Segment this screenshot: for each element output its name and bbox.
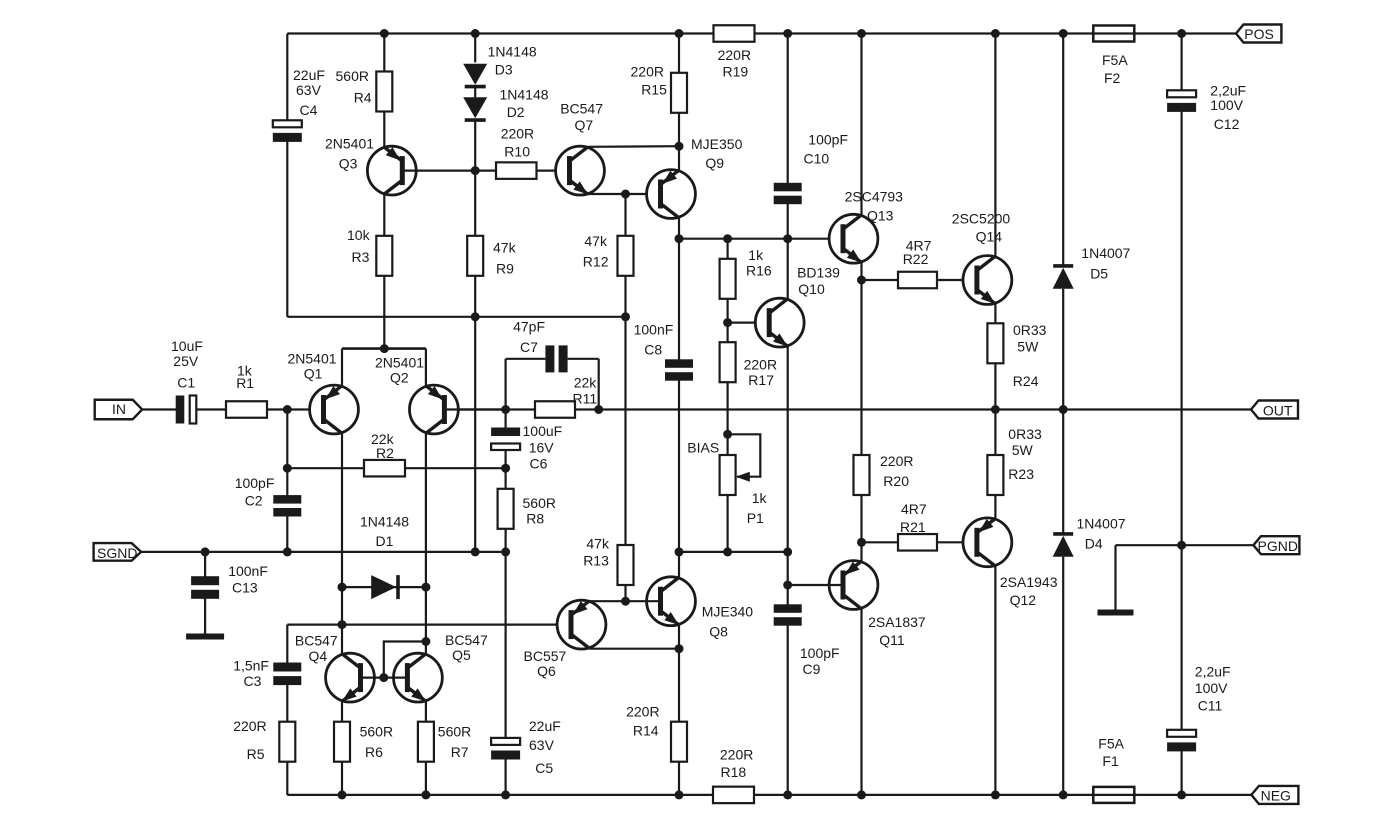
- wire R22 to Q14 base: [937, 279, 977, 281]
- capacitor C5: [491, 738, 520, 760]
- svg-text:C5: C5: [535, 760, 553, 776]
- svg-text:2,2uF: 2,2uF: [1195, 664, 1231, 680]
- junction: [421, 637, 430, 646]
- wire D1 line: [342, 586, 426, 588]
- wire R8 to SGND: [505, 529, 507, 552]
- svg-text:2N5401: 2N5401: [325, 136, 374, 152]
- svg-text:R3: R3: [352, 249, 370, 265]
- wire to C5: [505, 552, 507, 740]
- svg-text:R13: R13: [583, 552, 609, 568]
- wire Q8 collector up: [678, 552, 680, 578]
- svg-text:220R: 220R: [744, 356, 777, 372]
- svg-text:F2: F2: [1104, 70, 1121, 86]
- wire C11 to bottom rail: [1180, 750, 1182, 795]
- svg-text:R18: R18: [721, 764, 747, 780]
- wire Q6 collector line: [590, 648, 680, 650]
- diode D4: [1053, 534, 1074, 557]
- ground PGND: [1098, 610, 1134, 616]
- wire C4 column top: [286, 34, 288, 121]
- wire C1 to Q1 base: [190, 408, 324, 410]
- svg-text:BD139: BD139: [797, 265, 840, 281]
- resistor R4: [376, 72, 392, 112]
- wire: [474, 171, 476, 236]
- junction: [723, 547, 732, 556]
- resistor R2: [364, 460, 405, 477]
- resistor R20: [854, 455, 870, 495]
- wire: [1062, 34, 1064, 267]
- diode D5: [1053, 266, 1074, 289]
- resistor R10: [496, 162, 537, 179]
- wire Q9 collector: [678, 218, 680, 239]
- svg-text:R21: R21: [900, 519, 926, 535]
- svg-text:10uF: 10uF: [171, 338, 203, 354]
- svg-text:100V: 100V: [1210, 97, 1243, 113]
- svg-text:25V: 25V: [173, 353, 199, 369]
- svg-text:PGND: PGND: [1258, 538, 1298, 554]
- svg-text:2SA1943: 2SA1943: [1000, 574, 1058, 590]
- junction: [421, 790, 430, 799]
- capacitor C3: [273, 663, 301, 686]
- wire Q8 emitter to R14: [678, 625, 680, 722]
- wire Q11 base line: [788, 584, 843, 586]
- svg-text:63V: 63V: [529, 737, 555, 753]
- svg-text:220R: 220R: [501, 126, 534, 142]
- junction: [991, 405, 1000, 414]
- wire D4 to bottom rail: [1062, 557, 1064, 795]
- svg-text:47pF: 47pF: [513, 319, 545, 335]
- wire OUT line: [444, 408, 1251, 410]
- junction: [991, 29, 1000, 38]
- svg-text:4R7: 4R7: [901, 501, 927, 517]
- wire OUT to R23: [994, 410, 996, 456]
- wire: [726, 239, 728, 259]
- junction: [1059, 29, 1068, 38]
- diode D1: [371, 575, 398, 599]
- junction: [621, 597, 630, 606]
- wire VAS line: [679, 238, 843, 240]
- wire VAS to C8: [678, 239, 680, 362]
- wire to ground: [1114, 545, 1116, 610]
- junction: [338, 620, 347, 629]
- transistor Q5: [394, 653, 443, 702]
- svg-text:5W: 5W: [1017, 339, 1039, 355]
- wire Q14 collector to rail: [994, 34, 996, 257]
- svg-text:220R: 220R: [718, 47, 751, 63]
- capacitor C1: [176, 396, 197, 424]
- wire NEG bottom rail: [287, 794, 1251, 796]
- capacitor C11: [1167, 730, 1196, 752]
- junction: [471, 166, 480, 175]
- svg-text:100pF: 100pF: [235, 475, 275, 491]
- junction: [501, 547, 510, 556]
- capacitor C6: [491, 428, 520, 451]
- svg-text:Q6: Q6: [537, 663, 556, 679]
- wire: [568, 358, 599, 360]
- svg-text:47k: 47k: [493, 240, 517, 256]
- junction: [783, 547, 792, 556]
- wire LTP bottom line: [287, 316, 625, 318]
- svg-text:R22: R22: [903, 251, 929, 267]
- svg-text:2N5401: 2N5401: [288, 351, 337, 367]
- transistor Q11: [829, 561, 878, 610]
- svg-text:1N4148: 1N4148: [488, 43, 537, 59]
- svg-text:Q11: Q11: [879, 632, 905, 648]
- svg-text:R4: R4: [354, 90, 372, 106]
- wire R13 to node: [624, 585, 626, 601]
- junction: [380, 29, 389, 38]
- wire Q11 collector to bottom rail: [860, 609, 862, 795]
- resistor R12: [618, 236, 634, 276]
- svg-text:R17: R17: [748, 372, 774, 388]
- svg-text:2SC5200: 2SC5200: [952, 211, 1011, 227]
- junction: [675, 547, 684, 556]
- svg-text:560R: 560R: [336, 68, 369, 84]
- wire R21 to Q12 base: [937, 541, 977, 543]
- wire SGND line: [141, 551, 506, 553]
- ground C13: [186, 634, 224, 640]
- wire R10 to Q7 base: [537, 170, 570, 172]
- wire Q1 collector down: [341, 433, 343, 655]
- svg-text:Q1: Q1: [304, 366, 323, 382]
- transistor Q10: [755, 298, 804, 347]
- diode D2: [463, 97, 487, 120]
- junction: [675, 29, 684, 38]
- svg-text:Q7: Q7: [575, 117, 594, 133]
- net flag IN: [95, 400, 143, 420]
- net flag OUT: [1251, 401, 1298, 419]
- svg-text:220R: 220R: [626, 703, 659, 719]
- resistor R1: [226, 401, 267, 418]
- svg-text:Q9: Q9: [705, 155, 724, 171]
- wire C6 to node: [505, 451, 507, 469]
- svg-text:1k: 1k: [748, 247, 764, 263]
- svg-text:1N4148: 1N4148: [500, 86, 549, 102]
- wire Q3 base to R10: [402, 170, 496, 172]
- wire R4 to Q3: [383, 112, 385, 147]
- resistor R15: [671, 73, 687, 113]
- svg-text:220R: 220R: [233, 718, 266, 734]
- svg-text:R14: R14: [633, 723, 659, 739]
- junction: [338, 583, 347, 592]
- wire Q4-Q5 bases: [361, 676, 408, 678]
- wire: [787, 34, 789, 188]
- wire C7 branch up: [505, 359, 507, 410]
- wire: [474, 88, 476, 98]
- svg-text:POS: POS: [1244, 26, 1274, 42]
- wire Q13 emitter column to R20: [860, 280, 862, 455]
- net flag POS: [1236, 25, 1281, 43]
- junction: [675, 644, 684, 653]
- resistor R22: [898, 272, 937, 289]
- wire C12 down: [1180, 110, 1182, 545]
- svg-text:P1: P1: [747, 510, 764, 526]
- resistor R5: [279, 722, 295, 762]
- svg-text:F5A: F5A: [1102, 52, 1128, 68]
- svg-text:C1: C1: [177, 374, 195, 390]
- junction: [675, 790, 684, 799]
- wire R6 to bottom rail: [341, 762, 343, 795]
- svg-text:560R: 560R: [438, 723, 471, 739]
- wire C7 to OUT: [598, 359, 600, 410]
- junction: [501, 405, 510, 414]
- svg-text:C6: C6: [530, 456, 548, 472]
- junction: [783, 234, 792, 243]
- resistor R6: [334, 722, 350, 762]
- wire C13 to ground: [204, 599, 206, 635]
- svg-text:BIAS: BIAS: [687, 440, 719, 456]
- wire line A: [679, 551, 788, 553]
- wire: [506, 358, 546, 360]
- resistor R23: [987, 455, 1003, 495]
- wire Q14 emitter to R24: [994, 304, 996, 324]
- transistor Q12: [963, 518, 1012, 567]
- svg-text:C12: C12: [1214, 116, 1240, 132]
- svg-text:R24: R24: [1013, 373, 1039, 389]
- wire P1 to line A: [726, 495, 728, 552]
- wire input node down: [286, 410, 288, 469]
- svg-text:C13: C13: [232, 580, 258, 596]
- transistor Q4: [326, 653, 375, 702]
- svg-text:BC557: BC557: [524, 648, 567, 664]
- svg-text:Q4: Q4: [309, 648, 328, 664]
- svg-text:D1: D1: [376, 533, 394, 549]
- resistor R14: [671, 722, 687, 762]
- svg-text:MJE350: MJE350: [691, 136, 743, 152]
- wire R9 to SGND line: [474, 276, 476, 552]
- junction: [471, 547, 480, 556]
- capacitor C10: [774, 183, 802, 204]
- svg-text:1N4148: 1N4148: [360, 514, 409, 530]
- wire LTP tail: [342, 347, 426, 350]
- diode D3: [463, 64, 487, 87]
- wire C9 to bottom rail: [787, 622, 789, 795]
- resistor R24: [987, 323, 1003, 363]
- wire Q5 emitter to R7: [425, 701, 427, 721]
- wire C10 to VAS line: [787, 200, 789, 239]
- wire Q4 emitter to R6: [341, 701, 343, 721]
- wire R16 to R17: [726, 299, 728, 342]
- junction: [1177, 541, 1186, 550]
- junction: [991, 790, 1000, 799]
- junction BIAS node: [723, 430, 732, 439]
- wire: [383, 34, 385, 72]
- resistor R7: [418, 722, 434, 762]
- wire: [678, 34, 680, 73]
- net flag PGND: [1253, 536, 1299, 554]
- svg-text:560R: 560R: [360, 723, 393, 739]
- svg-text:16V: 16V: [529, 440, 555, 456]
- resistor R9: [467, 236, 483, 276]
- svg-text:R5: R5: [247, 746, 265, 762]
- svg-text:C11: C11: [1198, 698, 1223, 714]
- net flag SGND: [94, 543, 142, 561]
- wire Q2 emitter to tail: [425, 349, 427, 386]
- junction: [621, 312, 630, 321]
- wire Q13 emitter: [860, 263, 862, 281]
- junction: [338, 790, 347, 799]
- transistor Q13: [829, 214, 878, 263]
- svg-text:Q12: Q12: [1010, 592, 1037, 608]
- junction: [283, 405, 292, 414]
- svg-text:220R: 220R: [880, 453, 913, 469]
- svg-text:Q8: Q8: [709, 624, 728, 640]
- wire to Q10 base: [728, 322, 770, 324]
- resistor R13: [618, 545, 634, 585]
- junction: [1059, 790, 1068, 799]
- svg-text:2SA1837: 2SA1837: [868, 614, 926, 630]
- arrow P1 wiper: [736, 472, 750, 482]
- wire R14 to bottom rail: [678, 762, 680, 795]
- capacitor C2: [273, 495, 301, 516]
- svg-text:100nF: 100nF: [634, 321, 674, 337]
- wire Q3 to R3: [383, 194, 385, 235]
- wire to C11: [1180, 545, 1182, 731]
- wire Q9 emitter: [678, 146, 680, 170]
- svg-text:D4: D4: [1085, 535, 1103, 551]
- svg-text:D5: D5: [1090, 266, 1108, 282]
- svg-text:C4: C4: [300, 102, 318, 118]
- wire POS top rail: [287, 32, 1236, 34]
- wire R12 to R13: [624, 276, 626, 545]
- svg-text:R11: R11: [573, 391, 598, 407]
- transistor Q3: [367, 146, 416, 195]
- transistor Q7: [556, 146, 605, 195]
- svg-text:BC547: BC547: [560, 101, 603, 117]
- svg-text:2SC4793: 2SC4793: [845, 188, 904, 204]
- junction: [283, 547, 292, 556]
- wire Q6 base line: [287, 623, 571, 625]
- wire Q7 emitter to Q9 base: [588, 193, 661, 195]
- capacitor C9: [774, 604, 802, 625]
- wire R23 to Q12 emitter: [994, 495, 996, 519]
- svg-text:63V: 63V: [296, 82, 322, 98]
- resistor R21: [898, 534, 937, 551]
- junction: [1059, 405, 1068, 414]
- wire to C13: [204, 552, 206, 577]
- svg-text:Q2: Q2: [390, 370, 409, 386]
- wire: [862, 279, 899, 281]
- svg-text:D2: D2: [507, 104, 525, 120]
- wire: [444, 408, 505, 410]
- svg-text:100V: 100V: [1195, 680, 1228, 696]
- svg-text:1N4007: 1N4007: [1081, 245, 1130, 261]
- junction: [857, 790, 866, 799]
- wire Q12 collector to bottom rail: [994, 566, 996, 795]
- svg-text:NEG: NEG: [1261, 788, 1291, 804]
- junction: [471, 312, 480, 321]
- svg-text:10k: 10k: [347, 227, 371, 243]
- junction: [723, 234, 732, 243]
- resistor R3: [376, 236, 392, 276]
- wire base to Q5 collector: [384, 642, 426, 678]
- wire Q6 emitter to Q8 base: [590, 600, 661, 602]
- wire D5 to OUT: [1062, 289, 1064, 410]
- svg-text:Q5: Q5: [452, 647, 471, 663]
- svg-text:22uF: 22uF: [529, 718, 561, 734]
- svg-text:220R: 220R: [720, 747, 753, 763]
- svg-text:F1: F1: [1102, 753, 1119, 769]
- wire R7 to bottom rail: [425, 762, 427, 795]
- svg-text:560R: 560R: [523, 495, 556, 511]
- transistor Q14: [963, 256, 1012, 305]
- fuse F1: [1091, 787, 1136, 803]
- wire R24 to OUT: [994, 363, 996, 409]
- wire: [1180, 34, 1182, 92]
- resistor R8: [498, 489, 514, 529]
- svg-text:C7: C7: [520, 339, 538, 355]
- wire IN line: [142, 408, 180, 410]
- wire R17 through OUT to P1: [726, 382, 728, 455]
- junction: [201, 547, 210, 556]
- junction: [857, 276, 866, 285]
- wire R3 to tail: [383, 276, 385, 349]
- wire C4 to LTP line: [286, 140, 288, 316]
- fuse F2: [1091, 26, 1136, 42]
- capacitor C7: [545, 345, 567, 372]
- junction: [783, 29, 792, 38]
- wire to R8: [505, 468, 507, 489]
- resistor R18: [713, 787, 754, 804]
- svg-text:SGND: SGND: [97, 545, 137, 561]
- wire Q10 emitter down: [787, 346, 789, 552]
- svg-text:Q13: Q13: [867, 208, 894, 224]
- svg-text:2N5401: 2N5401: [375, 355, 424, 371]
- wire down to C3: [286, 625, 288, 663]
- wire: [787, 552, 789, 609]
- capacitor C12: [1167, 90, 1196, 112]
- svg-text:47k: 47k: [584, 233, 608, 249]
- junction: [621, 190, 630, 199]
- svg-text:D3: D3: [495, 61, 513, 77]
- svg-text:R10: R10: [504, 143, 530, 159]
- capacitor C4: [273, 120, 302, 142]
- svg-text:100nF: 100nF: [228, 563, 268, 579]
- svg-text:1,5nF: 1,5nF: [233, 658, 269, 674]
- svg-text:R6: R6: [365, 744, 383, 760]
- wire: [286, 468, 288, 499]
- transistor Q2: [410, 385, 459, 434]
- svg-text:C9: C9: [803, 661, 821, 677]
- wire: [862, 541, 899, 543]
- wire PGND line: [1116, 544, 1254, 546]
- wire R2 line: [287, 467, 505, 469]
- transistor Q9: [647, 170, 696, 219]
- wire R15 to node: [678, 113, 680, 146]
- svg-text:5W: 5W: [1012, 442, 1034, 458]
- junction: [783, 790, 792, 799]
- svg-text:22k: 22k: [574, 375, 598, 391]
- wire OUT to D4: [1062, 410, 1064, 535]
- junction: [1177, 790, 1186, 799]
- wire Q1 emitter to tail: [341, 349, 343, 386]
- svg-text:IN: IN: [112, 401, 126, 417]
- resistor R17: [720, 342, 736, 382]
- svg-text:1k: 1k: [752, 490, 768, 506]
- junction: [675, 142, 684, 151]
- svg-text:Q10: Q10: [798, 281, 825, 297]
- svg-text:OUT: OUT: [1263, 403, 1293, 419]
- wire to R12: [624, 194, 626, 236]
- junction: [783, 581, 792, 590]
- svg-text:Q3: Q3: [339, 156, 358, 172]
- wire D2 to R10 node: [474, 121, 476, 171]
- svg-text:0R33: 0R33: [1008, 426, 1042, 442]
- wire Q2 collector down: [425, 433, 427, 654]
- junction: [379, 673, 388, 682]
- svg-text:100pF: 100pF: [808, 132, 848, 148]
- wire Q10 collector: [787, 239, 789, 299]
- junction: [857, 29, 866, 38]
